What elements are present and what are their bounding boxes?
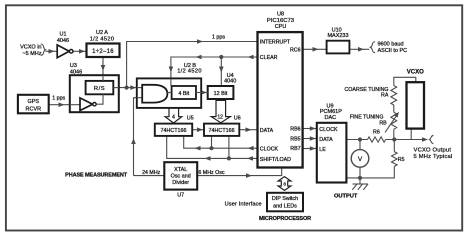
svg-text:RCVR: RCVR xyxy=(26,106,42,112)
svg-text:DAC: DAC xyxy=(324,115,336,121)
svg-text:1/2 4520: 1/2 4520 xyxy=(177,68,202,74)
svg-text:1 pps: 1 pps xyxy=(212,35,225,41)
svg-text:U5: U5 xyxy=(187,116,194,122)
svg-text:4046: 4046 xyxy=(57,38,69,44)
svg-text:12 Bit: 12 Bit xyxy=(214,91,228,97)
svg-text:U8: U8 xyxy=(277,12,284,18)
svg-text:1÷2–16: 1÷2–16 xyxy=(92,49,114,55)
svg-text:~5 MHz: ~5 MHz xyxy=(22,51,41,57)
svg-text:INTERRUPT: INTERRUPT xyxy=(260,40,291,46)
svg-text:6 MHz Osc: 6 MHz Osc xyxy=(198,170,225,176)
svg-text:4046: 4046 xyxy=(70,69,82,75)
svg-text:and LEDs: and LEDs xyxy=(273,204,297,210)
svg-text:VCXO in: VCXO in xyxy=(20,45,41,51)
svg-text:U2 A: U2 A xyxy=(96,30,108,36)
svg-text:DIP Switch: DIP Switch xyxy=(272,196,298,202)
svg-text:CPU: CPU xyxy=(275,24,287,30)
svg-text:Divider: Divider xyxy=(172,180,189,186)
svg-text:74HCT166: 74HCT166 xyxy=(160,128,186,134)
svg-text:4 Bit: 4 Bit xyxy=(178,91,189,97)
svg-text:1 pps: 1 pps xyxy=(52,96,65,102)
svg-text:CLEAR: CLEAR xyxy=(260,55,278,61)
svg-text:RB7: RB7 xyxy=(290,146,300,152)
svg-text:R5: R5 xyxy=(398,157,405,163)
svg-text:24 MHz: 24 MHz xyxy=(142,170,161,176)
svg-text:4: 4 xyxy=(172,115,175,121)
svg-text:CLOCK: CLOCK xyxy=(260,146,279,152)
svg-text:OUTPUT: OUTPUT xyxy=(334,193,358,199)
svg-text:DATA: DATA xyxy=(319,137,333,143)
svg-text:R/S: R/S xyxy=(94,86,105,92)
svg-text:U6: U6 xyxy=(234,116,241,122)
svg-text:U1: U1 xyxy=(59,32,66,38)
svg-text:RB5: RB5 xyxy=(290,136,300,142)
svg-text:SHIFT/LOAD: SHIFT/LOAD xyxy=(260,157,291,163)
svg-text:12: 12 xyxy=(217,115,223,121)
svg-text:CLOCK: CLOCK xyxy=(319,127,338,133)
svg-text:MICROPROCESSOR: MICROPROCESSOR xyxy=(259,216,311,222)
svg-text:LE: LE xyxy=(319,147,326,153)
svg-text:U3: U3 xyxy=(70,63,77,69)
svg-text:PHASE MEASUREMENT: PHASE MEASUREMENT xyxy=(65,172,128,178)
svg-text:R6: R6 xyxy=(373,129,380,135)
svg-text:9600 baud: 9600 baud xyxy=(378,42,404,48)
svg-text:4040: 4040 xyxy=(224,79,236,85)
svg-text:5 MHz Typical: 5 MHz Typical xyxy=(414,154,453,160)
svg-text:DATA: DATA xyxy=(260,128,274,134)
svg-text:Osc and: Osc and xyxy=(171,173,191,179)
svg-text:ASCII to PC: ASCII to PC xyxy=(378,48,408,54)
svg-text:1/2 4520: 1/2 4520 xyxy=(90,36,115,42)
svg-text:RA: RA xyxy=(381,93,389,99)
svg-text:RB6: RB6 xyxy=(290,127,300,133)
svg-text:PIC16C73: PIC16C73 xyxy=(267,18,295,24)
svg-text:8: 8 xyxy=(283,182,286,187)
svg-text:XTAL: XTAL xyxy=(174,167,187,173)
svg-text:VCXO Output: VCXO Output xyxy=(414,148,452,154)
svg-text:RC6: RC6 xyxy=(290,48,301,54)
svg-text:U7: U7 xyxy=(177,192,184,198)
svg-text:VCXO: VCXO xyxy=(407,70,424,76)
svg-text:74HCT166: 74HCT166 xyxy=(209,128,235,134)
svg-text:GPS: GPS xyxy=(27,99,39,105)
svg-text:RB: RB xyxy=(379,120,387,126)
svg-text:MAX233: MAX233 xyxy=(327,33,348,39)
svg-text:V: V xyxy=(358,156,363,163)
svg-text:User Interface: User Interface xyxy=(225,202,262,208)
